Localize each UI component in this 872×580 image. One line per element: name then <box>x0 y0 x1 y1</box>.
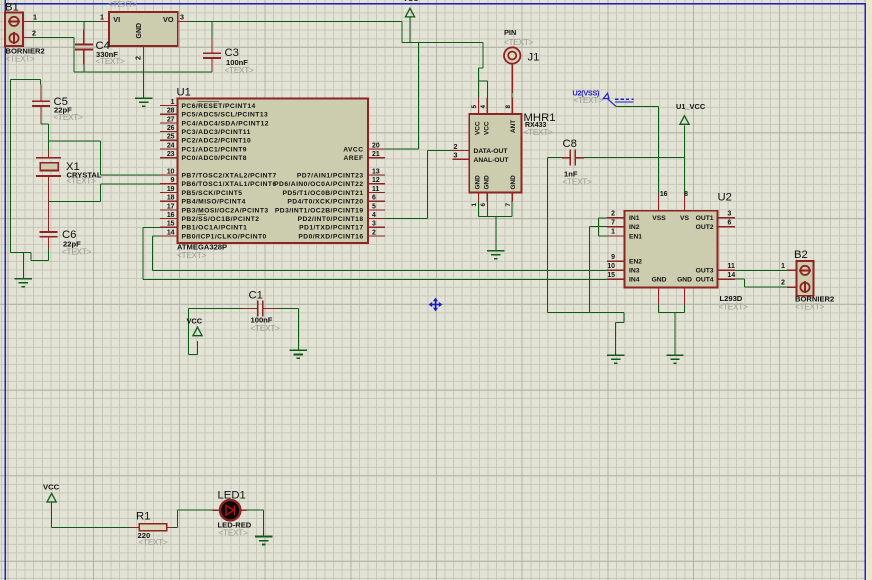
svg-text:IN1: IN1 <box>629 215 640 222</box>
svg-text:<TEXT>: <TEXT> <box>62 246 92 256</box>
svg-text:GND: GND <box>677 277 692 284</box>
svg-text:20: 20 <box>372 142 380 149</box>
svg-text:DATA-OUT: DATA-OUT <box>474 148 509 155</box>
svg-text:<TEXT>: <TEXT> <box>225 65 255 75</box>
svg-text:<TEXT>: <TEXT> <box>96 56 126 66</box>
svg-text:OUT3: OUT3 <box>696 268 714 275</box>
svg-text:<TEXT>: <TEXT> <box>67 175 97 185</box>
svg-text:<TEXT>: <TEXT> <box>524 127 554 137</box>
svg-text:1: 1 <box>471 203 478 207</box>
svg-text:26: 26 <box>167 125 175 132</box>
svg-text:16: 16 <box>660 191 668 198</box>
svg-text:GND: GND <box>652 277 667 284</box>
svg-text:23: 23 <box>167 151 175 158</box>
svg-text:<TEXT>: <TEXT> <box>108 0 138 9</box>
svg-text:PD4/T0/XCK/PCINT20: PD4/T0/XCK/PCINT20 <box>287 199 363 206</box>
svg-text:VSS: VSS <box>652 215 666 222</box>
svg-text:GND: GND <box>510 175 517 190</box>
svg-text:2: 2 <box>781 278 785 287</box>
svg-text:PC1/ADC1/PCINT9: PC1/ADC1/PCINT9 <box>182 146 247 153</box>
svg-text:28: 28 <box>167 108 175 115</box>
svg-text:17: 17 <box>167 203 175 210</box>
svg-text:9: 9 <box>611 254 615 261</box>
svg-text:PB6/TOSC1/XTAL1/PCINT6: PB6/TOSC1/XTAL1/PCINT6 <box>182 181 277 188</box>
svg-text:LED1: LED1 <box>218 490 246 502</box>
svg-text:AREF: AREF <box>343 155 363 162</box>
svg-text:VCC: VCC <box>475 121 482 135</box>
svg-text:B2: B2 <box>794 249 808 261</box>
svg-text:PC3/ADC3/PCINT11: PC3/ADC3/PCINT11 <box>182 129 251 136</box>
svg-text:<TEXT>: <TEXT> <box>574 95 604 105</box>
svg-text:3: 3 <box>728 211 732 218</box>
svg-text:14: 14 <box>728 272 736 279</box>
svg-text:U1: U1 <box>177 87 191 99</box>
svg-text:2: 2 <box>611 211 615 218</box>
svg-text:6: 6 <box>728 220 732 227</box>
svg-text:VCC: VCC <box>187 316 203 325</box>
svg-text:2: 2 <box>454 142 458 151</box>
svg-text:R1: R1 <box>136 511 150 523</box>
svg-text:10: 10 <box>607 263 615 270</box>
svg-text:2: 2 <box>32 29 36 38</box>
svg-text:1: 1 <box>171 99 175 106</box>
svg-text:OUT1: OUT1 <box>696 215 714 222</box>
svg-text:VCC: VCC <box>43 483 60 492</box>
svg-text:PC6/RESET/PCINT14: PC6/RESET/PCINT14 <box>182 103 256 110</box>
svg-text:13: 13 <box>372 169 380 176</box>
svg-text:<TEXT>: <TEXT> <box>177 250 207 260</box>
svg-text:PD5/T1/OC0B/PCINT21: PD5/T1/OC0B/PCINT21 <box>282 190 363 197</box>
svg-text:9: 9 <box>171 177 175 184</box>
svg-text:3: 3 <box>372 221 376 228</box>
svg-text:U1_VCC: U1_VCC <box>676 102 706 111</box>
svg-text:ANT: ANT <box>510 120 517 133</box>
svg-text:<TEXT>: <TEXT> <box>219 527 249 537</box>
svg-text:7: 7 <box>505 203 512 207</box>
svg-text:PB5/SCK/PCINT5: PB5/SCK/PCINT5 <box>182 190 243 197</box>
svg-text:PD7/AIN1/PCINT23: PD7/AIN1/PCINT23 <box>297 173 364 180</box>
svg-text:ANAL-OUT: ANAL-OUT <box>474 157 510 164</box>
svg-text:2: 2 <box>134 56 143 60</box>
svg-text:IN3: IN3 <box>629 268 640 275</box>
svg-text:4: 4 <box>480 105 487 109</box>
svg-text:<TEXT>: <TEXT> <box>504 37 534 47</box>
svg-text:5: 5 <box>372 203 376 210</box>
svg-text:PC0/ADC0/PCINT8: PC0/ADC0/PCINT8 <box>182 155 247 162</box>
svg-text:4: 4 <box>372 212 376 219</box>
svg-text:PD3/INT1/OC2B/PCINT19: PD3/INT1/OC2B/PCINT19 <box>275 207 364 214</box>
svg-text:GND: GND <box>483 175 490 190</box>
svg-text:<TEXT>: <TEXT> <box>251 323 281 333</box>
svg-text:3: 3 <box>180 13 184 22</box>
svg-text:PC5/ADC5/SCL/PCINT13: PC5/ADC5/SCL/PCINT13 <box>182 112 269 119</box>
svg-text:PB3/MOSI/OC2A/PCINT3: PB3/MOSI/OC2A/PCINT3 <box>182 207 269 214</box>
svg-text:19: 19 <box>167 186 175 193</box>
svg-text:3: 3 <box>454 151 458 160</box>
svg-text:PB7/TOSC2/XTAL2/PCINT7: PB7/TOSC2/XTAL2/PCINT7 <box>182 173 277 180</box>
svg-text:11: 11 <box>372 186 379 193</box>
svg-text:EN2: EN2 <box>629 259 642 266</box>
svg-text:GND: GND <box>136 23 143 39</box>
svg-text:VI: VI <box>113 15 120 24</box>
svg-text:8: 8 <box>505 105 512 109</box>
svg-text:<TEXT>: <TEXT> <box>6 54 36 64</box>
svg-text:<TEXT>: <TEXT> <box>719 301 749 311</box>
svg-text:VCC: VCC <box>403 0 419 3</box>
svg-text:IN2: IN2 <box>629 224 640 231</box>
svg-text:<TEXT>: <TEXT> <box>563 176 593 186</box>
svg-text:U2: U2 <box>718 192 732 204</box>
svg-text:OUT2: OUT2 <box>696 224 714 231</box>
svg-text:8: 8 <box>684 191 688 198</box>
svg-text:11: 11 <box>728 263 735 270</box>
svg-text:PD0/RXD/PCINT16: PD0/RXD/PCINT16 <box>298 233 363 240</box>
svg-text:C8: C8 <box>563 138 577 150</box>
svg-text:5: 5 <box>471 105 478 109</box>
svg-text:24: 24 <box>167 142 175 149</box>
svg-text:27: 27 <box>167 116 175 123</box>
svg-text:15: 15 <box>167 221 175 228</box>
svg-text:12: 12 <box>372 177 380 184</box>
svg-text:7: 7 <box>611 220 615 227</box>
svg-text:6: 6 <box>480 203 487 207</box>
svg-text:PB1/OC1A/PCINT1: PB1/OC1A/PCINT1 <box>182 225 248 232</box>
svg-text:15: 15 <box>607 272 615 279</box>
svg-text:16: 16 <box>167 212 175 219</box>
svg-text:25: 25 <box>167 134 175 141</box>
svg-text:2: 2 <box>372 229 376 236</box>
svg-text:<TEXT>: <TEXT> <box>139 537 169 547</box>
svg-text:18: 18 <box>167 195 175 202</box>
svg-text:VO: VO <box>163 15 174 24</box>
svg-text:C1: C1 <box>249 290 263 302</box>
svg-text:<TEXT>: <TEXT> <box>795 301 825 311</box>
svg-text:PB4/MISO/PCINT4: PB4/MISO/PCINT4 <box>182 199 246 206</box>
svg-text:B1: B1 <box>5 2 19 14</box>
svg-text:1: 1 <box>100 13 104 22</box>
svg-text:1: 1 <box>611 229 615 236</box>
svg-text:1: 1 <box>781 261 785 270</box>
svg-text:VS: VS <box>680 215 689 222</box>
svg-text:PD6/AIN0/OC0A/PCINT22: PD6/AIN0/OC0A/PCINT22 <box>274 181 363 188</box>
svg-text:14: 14 <box>167 229 175 236</box>
svg-text:PD1/TXD/PCINT17: PD1/TXD/PCINT17 <box>299 225 363 232</box>
svg-text:IN4: IN4 <box>629 277 640 284</box>
svg-text:EN1: EN1 <box>629 233 642 240</box>
svg-text:PD2/INT0/PCINT18: PD2/INT0/PCINT18 <box>298 216 364 223</box>
svg-text:PIN: PIN <box>504 28 516 37</box>
svg-text:1: 1 <box>33 13 37 22</box>
svg-text:10: 10 <box>167 169 175 176</box>
svg-text:<TEXT>: <TEXT> <box>54 112 84 122</box>
svg-text:GND: GND <box>475 175 482 190</box>
svg-text:PC4/ADC4/SDA/PCINT12: PC4/ADC4/SDA/PCINT12 <box>182 120 269 127</box>
svg-text:PB0/ICP1/CLKO/PCINT0: PB0/ICP1/CLKO/PCINT0 <box>182 233 267 240</box>
svg-text:OUT4: OUT4 <box>696 277 714 284</box>
svg-text:J1: J1 <box>528 52 540 64</box>
svg-text:21: 21 <box>372 151 380 158</box>
svg-text:PC2/ADC2/PCINT10: PC2/ADC2/PCINT10 <box>182 138 252 145</box>
svg-text:AVCC: AVCC <box>343 146 363 153</box>
svg-text:PB2/SS/OC1B/PCINT2: PB2/SS/OC1B/PCINT2 <box>182 216 260 223</box>
svg-text:6: 6 <box>372 195 376 202</box>
svg-text:VCC: VCC <box>483 121 490 135</box>
